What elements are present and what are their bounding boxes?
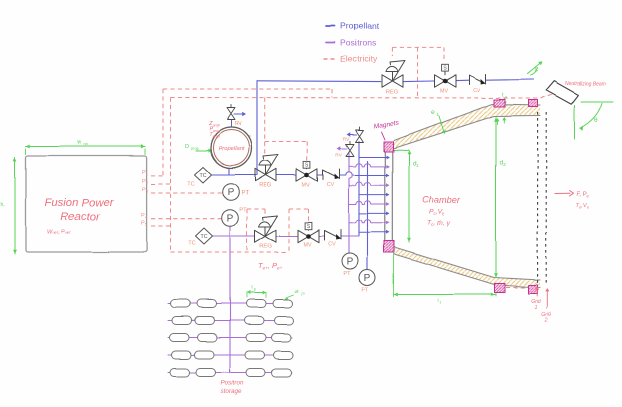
- svg-text:Reactor: Reactor: [60, 211, 101, 223]
- svg-text:TC: TC: [200, 234, 207, 240]
- svg-text:PT: PT: [361, 288, 369, 294]
- svg-text:Neutralizing Beam: Neutralizing Beam: [565, 81, 606, 87]
- svg-text:Electricity: Electricity: [340, 54, 377, 64]
- svg-text:CV: CV: [473, 88, 481, 94]
- svg-text:Positron: Positron: [220, 380, 244, 387]
- svg-text:MV: MV: [302, 183, 310, 189]
- svg-text:β: β: [535, 68, 538, 74]
- svg-text:CV: CV: [327, 182, 335, 188]
- svg-text:RV: RV: [234, 122, 242, 128]
- svg-text:TC: TC: [187, 182, 194, 188]
- svg-text:P5: P5: [141, 221, 148, 227]
- svg-text:P3: P3: [142, 187, 149, 193]
- svg-text:prop: prop: [191, 145, 199, 150]
- svg-text:P: P: [227, 214, 234, 225]
- svg-text:P: P: [347, 257, 354, 268]
- svg-text:e: e: [431, 110, 435, 117]
- svg-text:θ: θ: [594, 117, 598, 124]
- svg-text:p: p: [254, 287, 256, 291]
- svg-text:REG: REG: [259, 183, 272, 189]
- svg-text:l: l: [437, 298, 438, 303]
- svg-text:PT: PT: [239, 208, 247, 214]
- svg-text:MV: MV: [439, 89, 447, 95]
- svg-text:P: P: [228, 188, 235, 199]
- svg-text:P: P: [364, 274, 371, 285]
- svg-text:Propellant: Propellant: [218, 147, 244, 153]
- svg-text:Fusion Power: Fusion Power: [44, 197, 114, 209]
- svg-text:P4: P4: [141, 213, 148, 219]
- svg-text:Chamber: Chamber: [422, 195, 461, 205]
- svg-text:P1: P1: [142, 170, 149, 176]
- svg-text:PT: PT: [343, 271, 351, 277]
- svg-text:Te,Ve: Te,Ve: [575, 203, 589, 209]
- svg-text:1: 1: [439, 300, 441, 304]
- svg-text:MV: MV: [303, 242, 311, 248]
- svg-text:1: 1: [535, 305, 538, 311]
- svg-text:Tc, ṁ, γ: Tc, ṁ, γ: [427, 220, 451, 228]
- svg-text:2: 2: [544, 318, 548, 324]
- svg-text:TC: TC: [199, 173, 206, 179]
- svg-text:RV: RV: [343, 137, 350, 143]
- svg-text:RV: RV: [336, 153, 343, 159]
- svg-text:c: c: [505, 94, 507, 99]
- svg-text:REG: REG: [386, 90, 399, 96]
- svg-text:Wₙₑₜ, Pₙₑₜ: Wₙₑₜ, Pₙₑₜ: [47, 230, 72, 236]
- svg-text:P2: P2: [142, 178, 149, 184]
- svg-text:Positrons: Positrons: [340, 38, 376, 48]
- svg-text:w: w: [77, 140, 81, 146]
- svg-text:⌀l: ⌀l: [294, 289, 298, 295]
- svg-text:storage: storage: [220, 389, 242, 396]
- svg-text:PT: PT: [242, 191, 250, 197]
- svg-text:ps: ps: [301, 291, 305, 295]
- svg-text:l: l: [251, 285, 252, 291]
- svg-text:Propellant: Propellant: [340, 21, 379, 31]
- svg-text:REG: REG: [260, 244, 273, 250]
- svg-text:h,: h,: [1, 202, 5, 208]
- svg-text:TC: TC: [188, 241, 195, 247]
- svg-text:CV: CV: [328, 242, 336, 248]
- svg-text:D: D: [185, 144, 189, 150]
